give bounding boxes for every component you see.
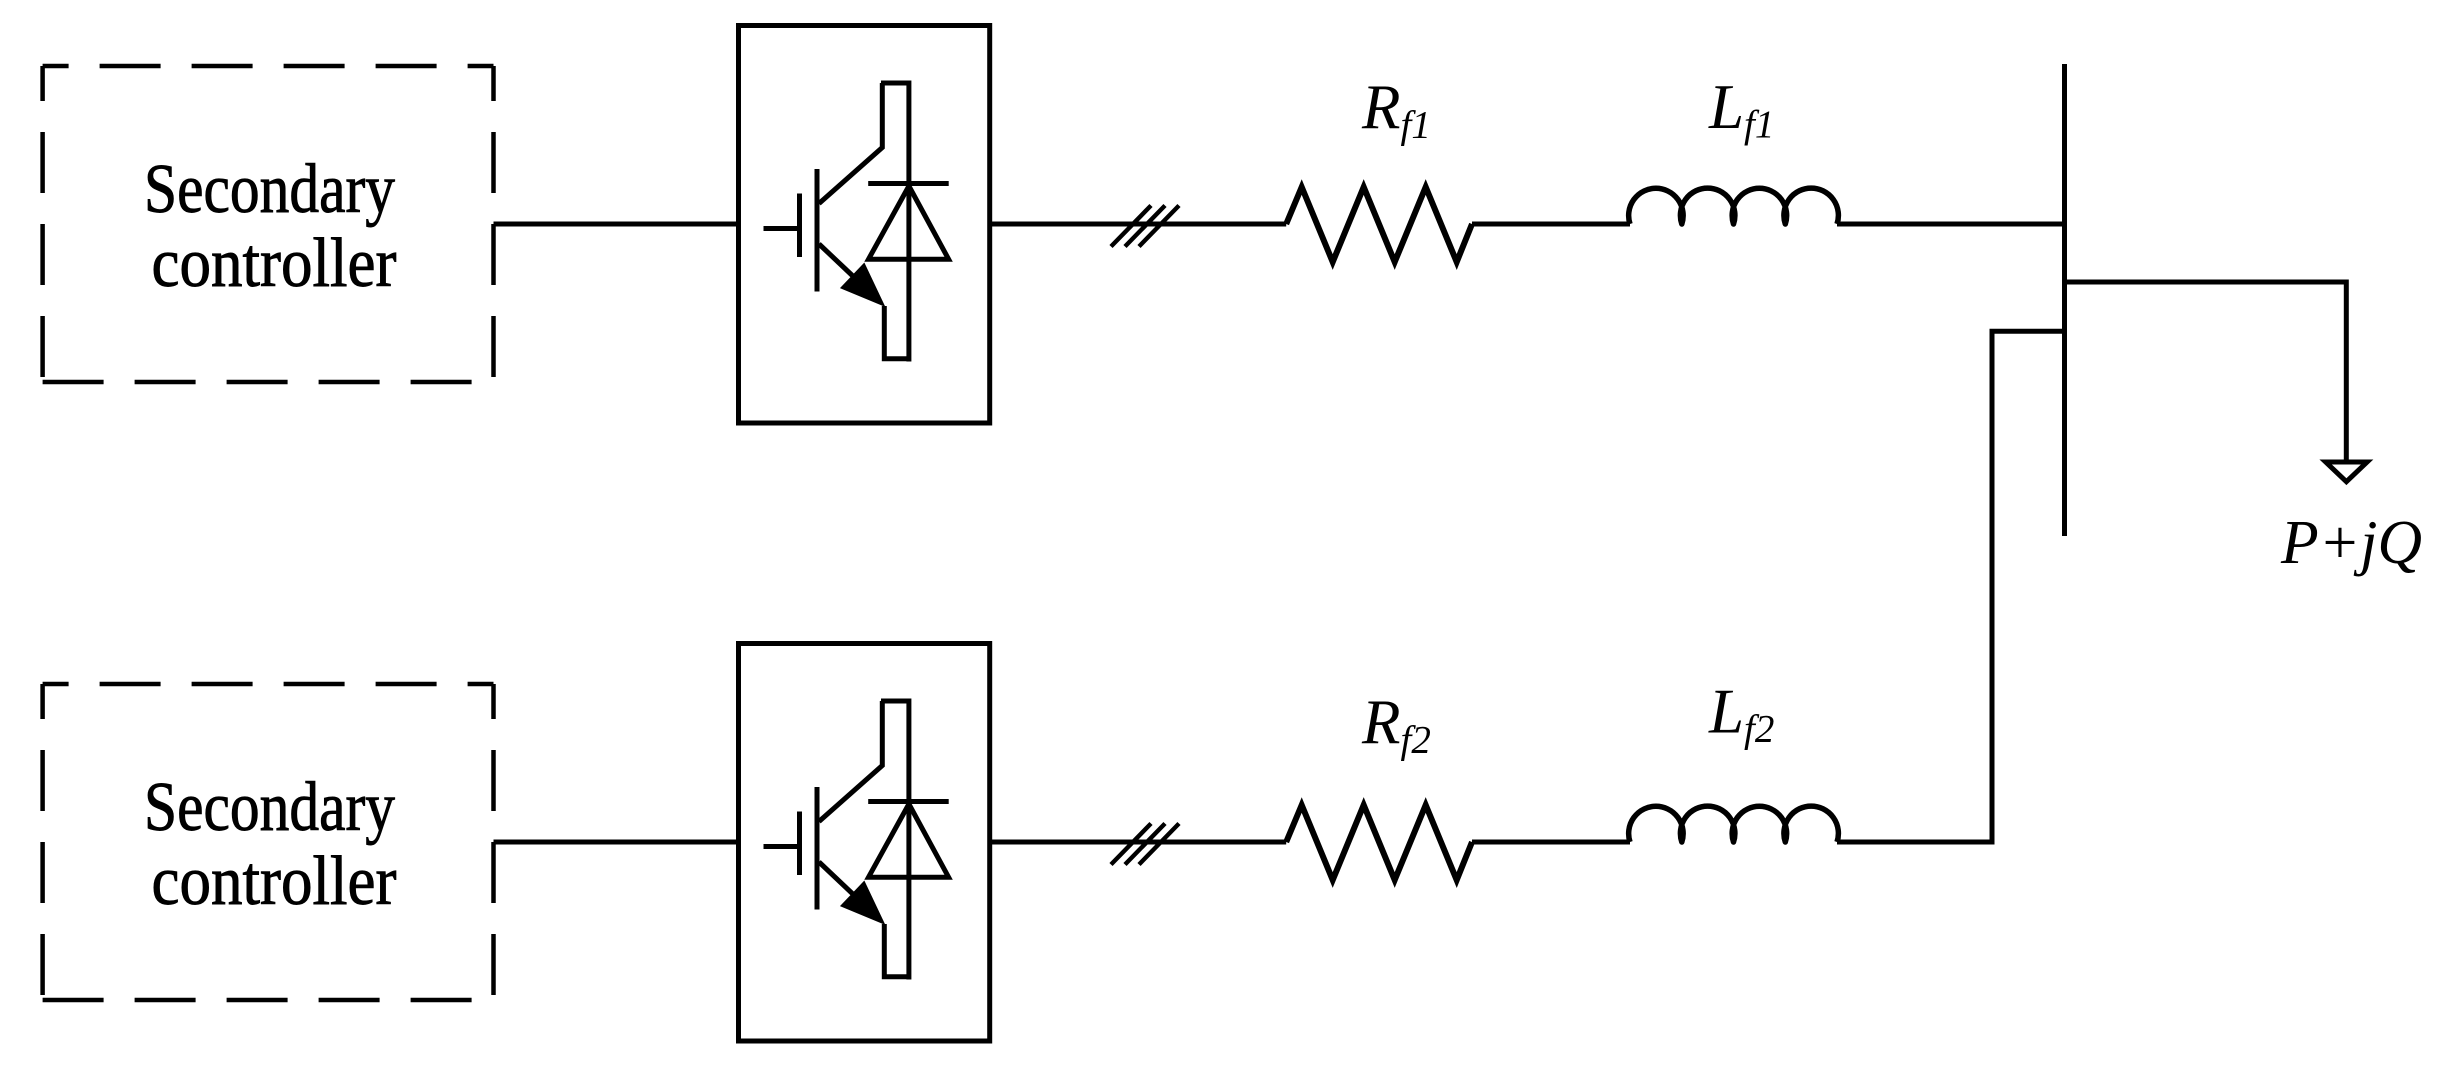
svg-text:P+jQ: P+jQ	[2280, 509, 2422, 577]
